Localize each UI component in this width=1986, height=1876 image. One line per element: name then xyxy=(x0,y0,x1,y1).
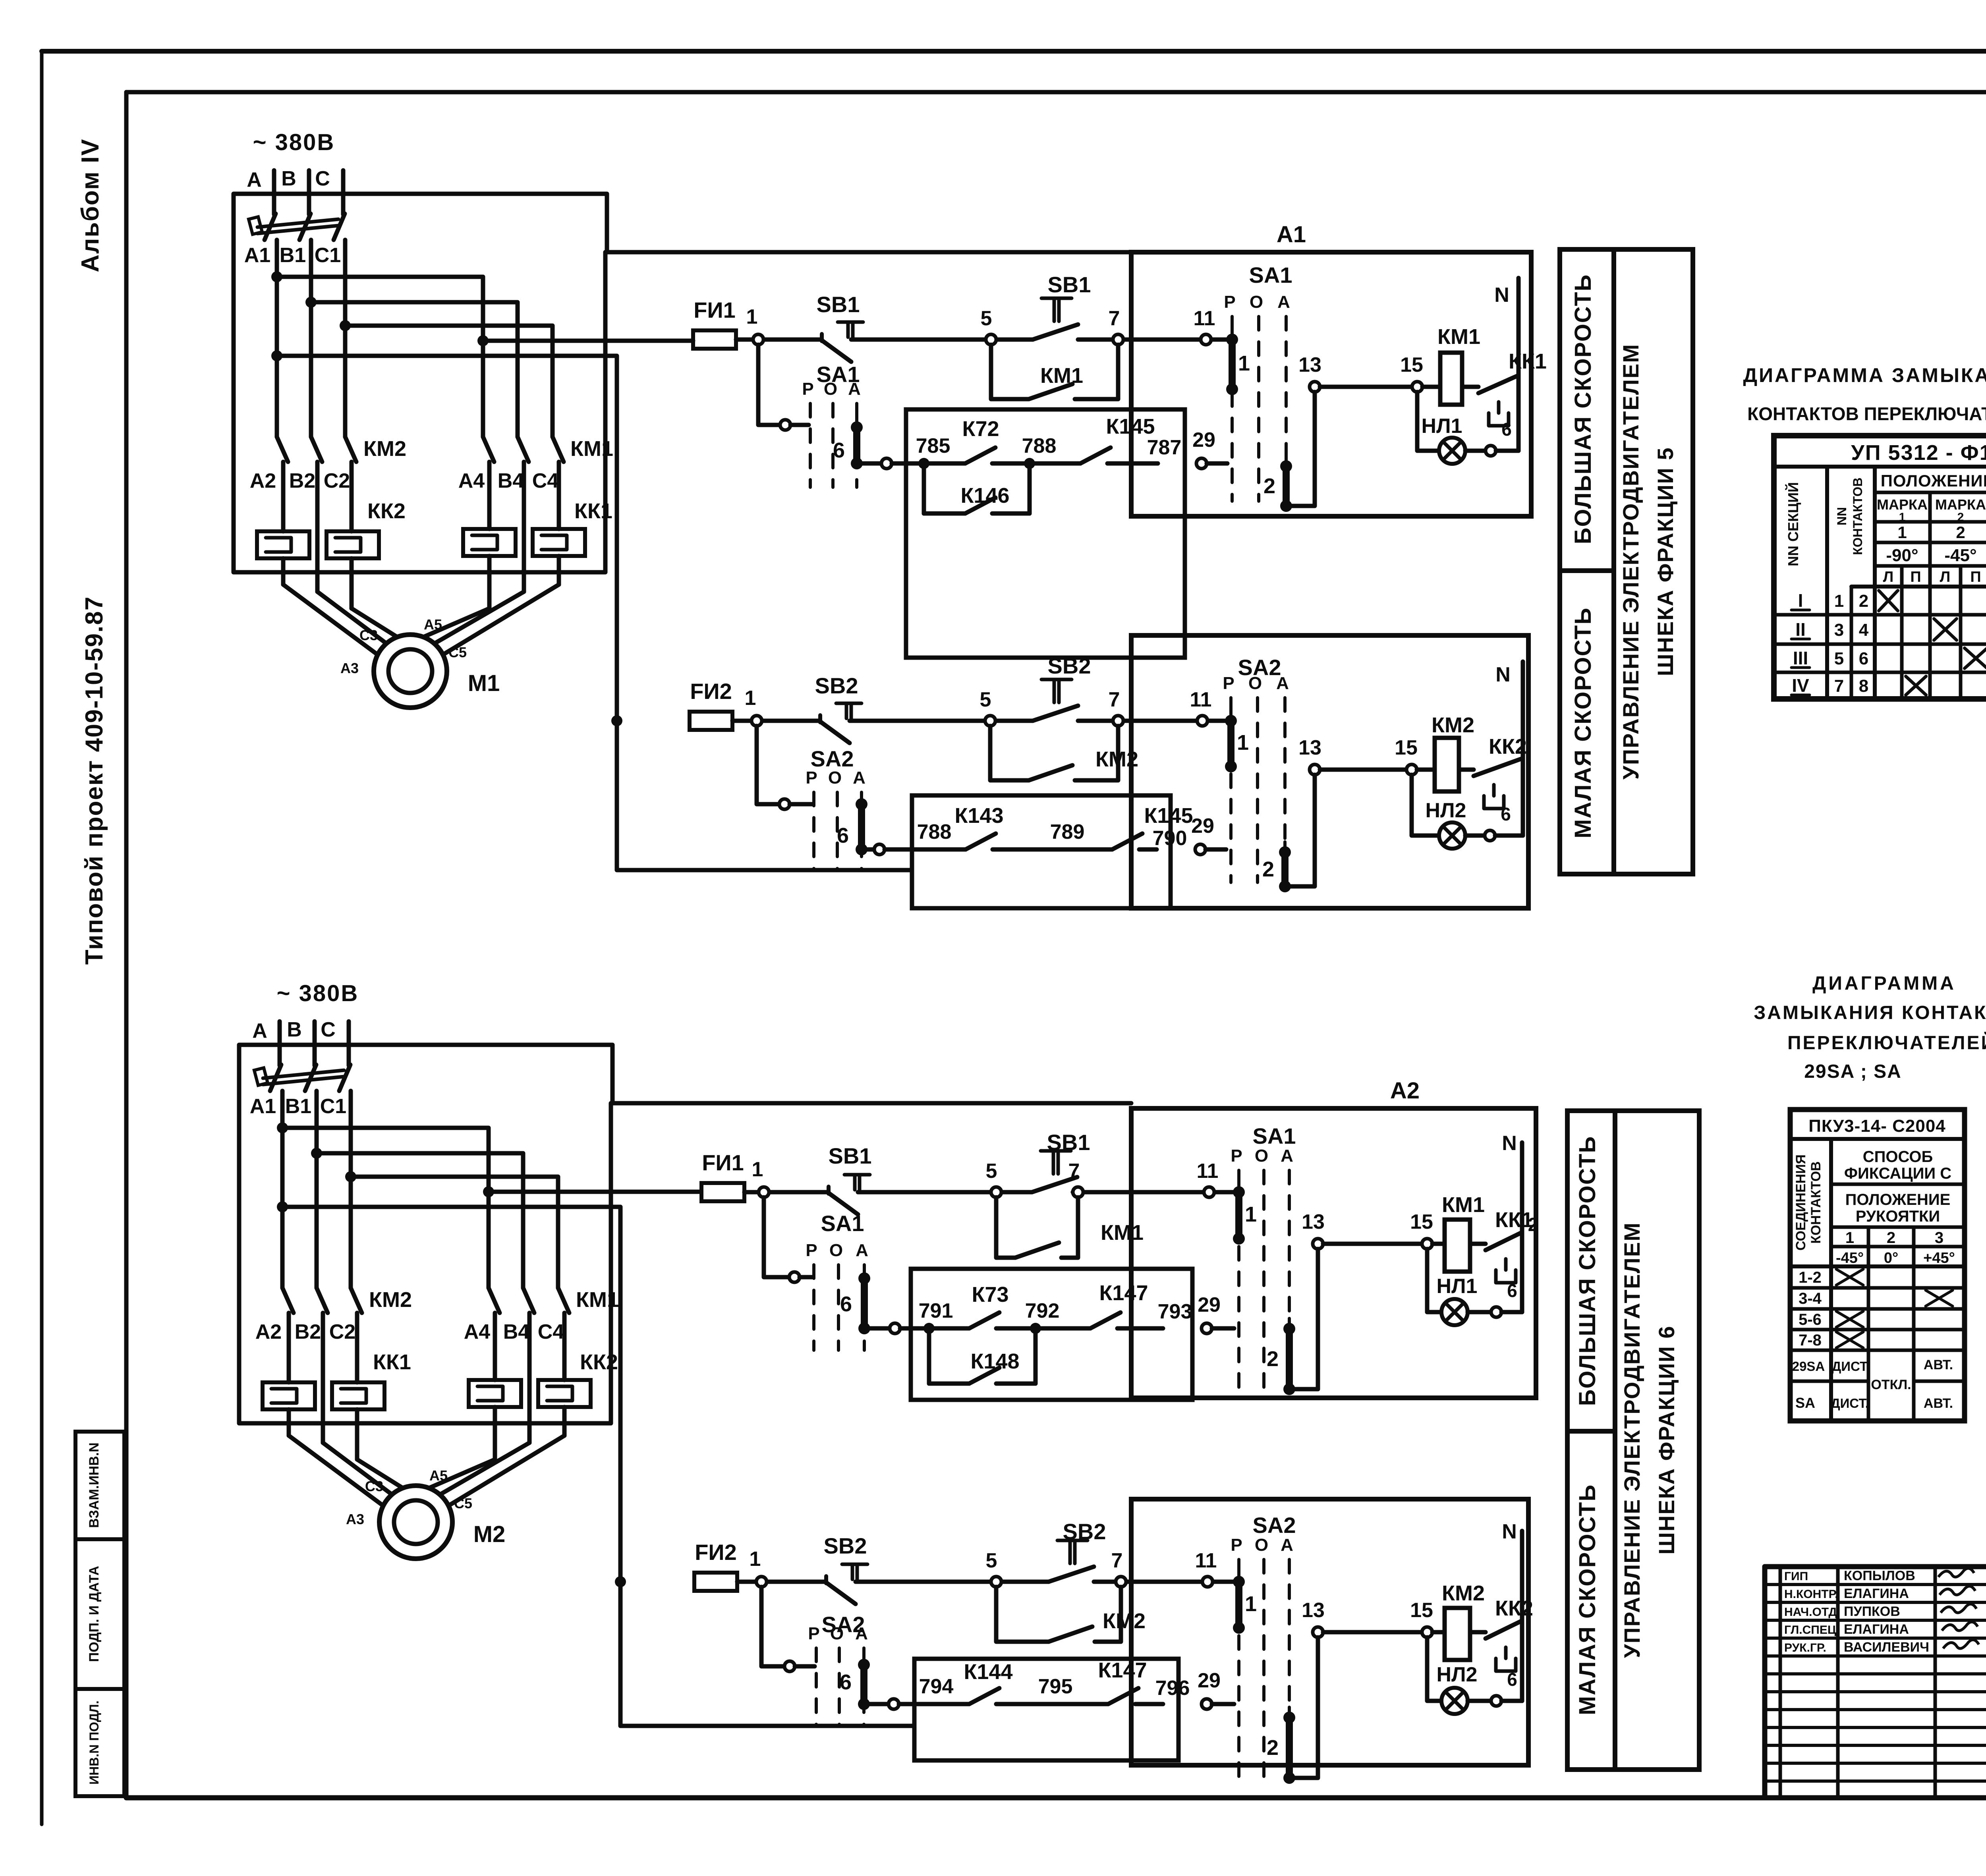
svg-text:Н.КОНТР.: Н.КОНТР. xyxy=(1784,1588,1838,1601)
stop button SB1 NC (M1 row 1) xyxy=(817,292,863,362)
svg-text:О: О xyxy=(830,1624,844,1643)
start button SB1 NO (M2 row 1) xyxy=(1032,1130,1090,1192)
svg-text:2: 2 xyxy=(1263,474,1275,498)
phase line C (М2) xyxy=(321,1018,349,1065)
svg-text:В2: В2 xyxy=(295,1320,321,1343)
svg-text:В4: В4 xyxy=(498,469,524,492)
svg-text:6: 6 xyxy=(840,1292,852,1316)
svg-text:29SA ; SA: 29SA ; SA xyxy=(1804,1061,1902,1082)
node 29 (M2 row 2) xyxy=(1198,1669,1234,1709)
svg-text:А3: А3 xyxy=(340,660,359,676)
svg-text:М1: М1 xyxy=(468,670,500,696)
svg-text:8: 8 xyxy=(1859,676,1868,696)
node 5 (M2 row 1) xyxy=(986,1160,1001,1197)
svg-text:М2: М2 xyxy=(473,1521,506,1547)
svg-text:А: А xyxy=(856,1241,868,1260)
control rail wire (M1 row 1) xyxy=(736,338,1231,342)
svg-text:6: 6 xyxy=(1859,649,1868,668)
interlock contact К147 (M2 row 1) xyxy=(1090,1281,1148,1328)
phase line C (М1) xyxy=(315,167,343,214)
thermal relay КК2 heaters (М1) xyxy=(257,462,406,608)
interlock enclosure (M1 row 1) xyxy=(906,409,1185,658)
svg-text:КК2: КК2 xyxy=(367,499,406,523)
svg-text:А: А xyxy=(853,768,865,787)
svg-text:ПУПКОВ: ПУПКОВ xyxy=(1844,1604,1900,1619)
svg-text:7: 7 xyxy=(1834,676,1844,696)
contact table PKU3-14-C2004 xyxy=(1790,1110,1965,1421)
svg-text:Типовой проект 409-10-59.87: Типовой проект 409-10-59.87 xyxy=(81,596,108,965)
svg-text:А: А xyxy=(252,1019,267,1042)
svg-text:SA1: SA1 xyxy=(1249,262,1292,288)
interlock contact К73 (M2 row 1) xyxy=(969,1283,1009,1328)
svg-text:ЗАМЫКАНИЯ КОНТАКТОВ: ЗАМЫКАНИЯ КОНТАКТОВ xyxy=(1754,1002,1986,1023)
svg-text:С4: С4 xyxy=(532,469,559,492)
svg-text:ОТКЛ.: ОТКЛ. xyxy=(1871,1377,1911,1392)
svg-text:АВТ.: АВТ. xyxy=(1924,1357,1953,1372)
svg-text:А: А xyxy=(848,379,861,399)
wire 13 to 15 (M1 row 2) xyxy=(1320,768,1406,772)
thermal contact КК2 (M1 row 2) xyxy=(1459,735,1527,809)
svg-text:SB1: SB1 xyxy=(817,292,860,317)
feeder wire to fuse FI2 row (M1) xyxy=(271,350,912,870)
node B1 (М2) xyxy=(285,1095,311,1118)
svg-text:NN СЕКЦИЙ: NN СЕКЦИЙ xyxy=(1785,482,1801,566)
svg-text:2: 2 xyxy=(1956,523,1965,542)
svg-text:А: А xyxy=(1276,674,1289,693)
selector inner shafts P O A (M1 row 2) xyxy=(1223,655,1289,882)
svg-text:2: 2 xyxy=(1887,1229,1895,1247)
svg-text:Р: Р xyxy=(808,1624,819,1643)
svg-text:КМ1: КМ1 xyxy=(1101,1221,1144,1245)
selector contact 2 on shaft A (M2 row 1) xyxy=(1267,1249,1318,1395)
svg-text:О: О xyxy=(1255,1535,1268,1555)
svg-text:НЛ1: НЛ1 xyxy=(1437,1275,1478,1298)
svg-text:13: 13 xyxy=(1298,736,1321,759)
svg-text:ЕЛАГИНА: ЕЛАГИНА xyxy=(1844,1622,1909,1637)
self-hold contact КМ1 (M1 row 1) xyxy=(991,345,1118,399)
node labels A4 B4 C4 (М1) xyxy=(458,469,559,492)
node A1 (М1) xyxy=(244,244,270,267)
svg-text:SB2: SB2 xyxy=(815,673,858,698)
phase line A (М1) xyxy=(247,168,274,214)
svg-text:К72: К72 xyxy=(962,417,999,441)
svg-text:КМ1: КМ1 xyxy=(1442,1193,1485,1217)
svg-text:О: О xyxy=(828,768,842,787)
svg-text:15: 15 xyxy=(1410,1210,1433,1233)
svg-text:N: N xyxy=(1495,663,1511,686)
node labels A2 B2 C2 (М2) xyxy=(255,1320,355,1343)
svg-text:ПКУ3-14- С2004: ПКУ3-14- С2004 xyxy=(1808,1116,1946,1136)
svg-text:БОЛЬШАЯ СКОРОСТЬ: БОЛЬШАЯ СКОРОСТЬ xyxy=(1575,1136,1600,1406)
svg-text:О: О xyxy=(824,379,837,399)
node 5 (M1 row 1) xyxy=(981,307,996,345)
svg-text:1: 1 xyxy=(745,687,756,710)
interlock enclosure (M2 row 2) xyxy=(914,1659,1178,1760)
node 11 (M2 row 1) xyxy=(1197,1160,1219,1197)
power enclosure box (М2) xyxy=(239,1045,612,1423)
svg-text:СОЕДИНЕНИЯ: СОЕДИНЕНИЯ xyxy=(1793,1154,1808,1251)
svg-text:В1: В1 xyxy=(280,244,306,267)
svg-text:В2: В2 xyxy=(289,469,315,492)
fuse FИ1 (M2 row 1) xyxy=(701,1150,744,1201)
node 29 (M1 row 1) xyxy=(1192,428,1227,469)
svg-text:SB1: SB1 xyxy=(1047,1130,1090,1155)
svg-text:1: 1 xyxy=(1834,591,1844,611)
left margin stamp strip xyxy=(75,1432,124,1796)
svg-text:6: 6 xyxy=(1507,1669,1517,1690)
svg-text:-45°: -45° xyxy=(1836,1250,1864,1266)
control block enclosure А2 (M2 row 1) xyxy=(1131,1078,1536,1398)
wire node1 to selector (M2 row 2) xyxy=(761,1587,815,1671)
svg-text:С2: С2 xyxy=(329,1320,355,1343)
neutral wire N (M1 row 2) xyxy=(1495,662,1523,836)
svg-text:ЕЛАГИНА: ЕЛАГИНА xyxy=(1844,1586,1909,1601)
svg-text:В4: В4 xyxy=(503,1320,530,1343)
svg-text:5: 5 xyxy=(1834,649,1844,668)
motor М2 xyxy=(346,1467,505,1559)
branch wire A to KM1 contacts (М1) xyxy=(271,271,483,437)
svg-text:А: А xyxy=(1277,292,1290,312)
control block enclosure А1 (M1 row 1) xyxy=(1131,222,1531,516)
interlock contact chain wire (M2 row 1) xyxy=(870,1323,1163,1334)
svg-text:А3: А3 xyxy=(346,1511,364,1527)
selector contact 6 on shaft A (M1 row 1) xyxy=(833,417,863,469)
wire node1 to selector (M1 row 2) xyxy=(757,726,812,809)
svg-text:НЛ2: НЛ2 xyxy=(1437,1663,1478,1686)
start button SB2 NO (M2 row 2) xyxy=(1049,1519,1106,1582)
wire 13 to 15 (M1 row 1) xyxy=(1320,385,1412,389)
svg-text:2: 2 xyxy=(1267,1347,1279,1371)
branch wire B to KM1 contacts (М1) xyxy=(305,297,518,437)
title block signatures xyxy=(1784,1568,1979,1655)
svg-text:К147: К147 xyxy=(1099,1281,1148,1305)
svg-text:11: 11 xyxy=(1190,688,1212,711)
svg-text:КК1: КК1 xyxy=(1509,349,1547,373)
function label box Управление электродвигателем шнека xyxy=(1615,1111,1699,1770)
svg-text:5-6: 5-6 xyxy=(1799,1311,1822,1328)
svg-text:15: 15 xyxy=(1410,1599,1433,1622)
svg-text:SA2: SA2 xyxy=(811,746,854,771)
svg-text:НЛ2: НЛ2 xyxy=(1426,799,1466,822)
interlock contact К145 (M1 row 2) xyxy=(1112,804,1193,849)
selector switch SA2 dashed shafts P O A (M2 row 2) xyxy=(808,1612,868,1725)
svg-text:SB2: SB2 xyxy=(1048,653,1091,678)
svg-text:А4: А4 xyxy=(458,469,485,492)
selector switch SA1 dashed shafts P O A (M2 row 1) xyxy=(806,1211,868,1350)
svg-text:Р: Р xyxy=(1231,1535,1242,1555)
svg-text:ПОДП. И ДАТА: ПОДП. И ДАТА xyxy=(87,1566,102,1662)
svg-text:Р: Р xyxy=(1231,1146,1242,1166)
stop button SB1 NC (M2 row 1) xyxy=(829,1143,872,1214)
svg-text:3: 3 xyxy=(1935,1229,1943,1247)
svg-text:МАЛАЯ СКОРОСТЬ: МАЛАЯ СКОРОСТЬ xyxy=(1570,607,1596,838)
diagram title for switch 10SA xyxy=(1743,364,1986,424)
selector switch SA1 dashed shafts P O A (M1 row 1) xyxy=(802,362,861,487)
svg-text:ДИАГРАММА ЗАМЫКАНИЯ: ДИАГРАММА ЗАМЫКАНИЯ xyxy=(1743,364,1986,386)
svg-text:6: 6 xyxy=(1507,1280,1517,1301)
svg-text:13: 13 xyxy=(1302,1210,1325,1233)
svg-text:РУКОЯТКИ: РУКОЯТКИ xyxy=(1856,1208,1940,1225)
svg-text:П: П xyxy=(1910,569,1921,585)
svg-text:Р: Р xyxy=(1224,292,1235,312)
svg-text:785: 785 xyxy=(916,434,950,457)
svg-text:1: 1 xyxy=(746,305,758,328)
svg-text:КМ2: КМ2 xyxy=(1432,713,1474,737)
svg-text:А4: А4 xyxy=(464,1320,491,1343)
start button SB2 NO (M1 row 2) xyxy=(1033,653,1091,721)
neutral wire N (M2 row 1) xyxy=(1502,1132,1522,1312)
thermal relay КК2 heaters (М2) xyxy=(469,1313,618,1459)
svg-text:792: 792 xyxy=(1025,1299,1060,1322)
svg-text:О: О xyxy=(1255,1146,1268,1166)
svg-text:ДИСТ.: ДИСТ. xyxy=(1831,1396,1869,1411)
svg-text:0°: 0° xyxy=(1884,1250,1898,1266)
fuse FИ2 (M2 row 2) xyxy=(694,1540,737,1591)
node 11 (M1 row 2) xyxy=(1190,688,1212,726)
svg-text:ВЗАМ.ИНВ.N: ВЗАМ.ИНВ.N xyxy=(87,1442,102,1528)
svg-text:МАРКА: МАРКА xyxy=(1877,496,1928,513)
phase C vertical after switch (М2) xyxy=(349,1091,353,1288)
svg-text:7: 7 xyxy=(1109,307,1120,330)
svg-text:796: 796 xyxy=(1155,1677,1190,1700)
interlock bypass contact К146 (M1 row 1) xyxy=(918,458,1035,513)
motor М1 xyxy=(340,616,500,708)
svg-text:ДИСТ: ДИСТ xyxy=(1832,1359,1868,1374)
contactor coil КМ1 (M2 row 1) xyxy=(1432,1193,1485,1272)
node 13 (M1 row 1) xyxy=(1298,353,1321,392)
interlock contact К72 (M1 row 1) xyxy=(962,417,999,463)
svg-text:ШНЕКА ФРАКЦИИ 6: ШНЕКА ФРАКЦИИ 6 xyxy=(1654,1325,1679,1554)
svg-text:5: 5 xyxy=(986,1160,997,1183)
speed label box Большая скорость xyxy=(1560,249,1614,571)
selector contact 1 on shaft P (M1 row 2) xyxy=(1225,710,1249,772)
contact table UP 5312-F105 xyxy=(1774,436,1986,699)
svg-text:788: 788 xyxy=(1022,434,1057,457)
svg-text:789: 789 xyxy=(1050,820,1085,843)
interlock contact К144 (M2 row 2) xyxy=(964,1660,1012,1704)
title block stamp xyxy=(1765,1567,1986,1798)
svg-text:С2: С2 xyxy=(324,469,350,492)
node 1 (M1 row 1) xyxy=(746,305,763,345)
thermal contact КК1 (M1 row 1) xyxy=(1462,349,1547,426)
svg-text:К146: К146 xyxy=(960,484,1009,508)
svg-text:РУК.ГР.: РУК.ГР. xyxy=(1784,1641,1826,1654)
svg-text:А5: А5 xyxy=(429,1467,448,1484)
svg-text:С1: С1 xyxy=(320,1095,346,1118)
node 29 (M2 row 1) xyxy=(1198,1293,1234,1334)
node 15 (M2 row 1) xyxy=(1410,1210,1433,1249)
svg-text:NN: NN xyxy=(1835,507,1849,525)
power enclosure box (М1) xyxy=(234,194,607,572)
svg-text:КМ2: КМ2 xyxy=(363,437,406,461)
svg-text:К148: К148 xyxy=(970,1349,1019,1373)
svg-text:НЛ1: НЛ1 xyxy=(1422,415,1462,438)
svg-text:ИНВ.N ПОДЛ.: ИНВ.N ПОДЛ. xyxy=(87,1700,101,1785)
svg-text:IV: IV xyxy=(1792,675,1809,696)
branch wire B to KM1 contacts (М2) xyxy=(311,1148,523,1288)
interlock contact chain wire (M1 row 2) xyxy=(867,844,1157,855)
svg-text:АВТ.: АВТ. xyxy=(1924,1396,1953,1411)
svg-text:О: О xyxy=(1250,292,1263,312)
svg-text:ДИАГРАММА: ДИАГРАММА xyxy=(1812,973,1956,994)
control block enclosure (M1 row 2) xyxy=(1131,635,1528,908)
wire labels 794 795 796 (M2 row 2) xyxy=(919,1675,1190,1700)
svg-text:К144: К144 xyxy=(964,1660,1012,1684)
stop button SB2 NC (M2 row 2) xyxy=(824,1533,867,1604)
self-hold contact КМ1 (M2 row 1) xyxy=(996,1197,1144,1258)
svg-text:В1: В1 xyxy=(285,1095,311,1118)
selector contact 1 on shaft P (M2 row 1) xyxy=(1233,1182,1257,1245)
svg-text:1: 1 xyxy=(752,1158,763,1181)
svg-text:А2: А2 xyxy=(250,469,276,492)
svg-text:29: 29 xyxy=(1191,814,1214,838)
svg-text:SA: SA xyxy=(1795,1395,1815,1411)
node B1 (М1) xyxy=(280,244,306,267)
contactor coil КМ2 (M1 row 2) xyxy=(1417,713,1474,791)
svg-text:-45°: -45° xyxy=(1944,546,1976,565)
node 11 (M2 row 2) xyxy=(1195,1549,1217,1587)
node 1 (M2 row 1) xyxy=(752,1158,769,1197)
svg-text:1: 1 xyxy=(1845,1229,1854,1247)
speed label box Малая скорость xyxy=(1560,571,1614,874)
signal lamp НЛ1 (M1 row 1) xyxy=(1417,392,1518,464)
branch wire C to KM1 contacts (М1) xyxy=(340,320,553,437)
svg-text:SB1: SB1 xyxy=(1048,272,1091,297)
svg-text:С3: С3 xyxy=(359,627,378,643)
svg-text:2: 2 xyxy=(1957,511,1964,524)
svg-text:КОНТАКТОВ: КОНТАКТОВ xyxy=(1808,1161,1824,1243)
3-pole disconnect switch QS (М2) xyxy=(254,1065,350,1091)
svg-text:6: 6 xyxy=(1501,804,1511,824)
node 11 (M1 row 1) xyxy=(1194,307,1215,345)
branch wire C to KM1 contacts (М2) xyxy=(345,1171,558,1288)
wire labels 788 789 790 (M1 row 2) xyxy=(917,820,1187,850)
svg-text:К73: К73 xyxy=(972,1283,1008,1307)
wire 13 to 15 (M2 row 1) xyxy=(1323,1242,1422,1246)
svg-text:7-8: 7-8 xyxy=(1799,1332,1822,1349)
node 13 (M2 row 1) xyxy=(1302,1210,1325,1249)
contactor KM1 main contacts (М2) xyxy=(489,1288,619,1313)
svg-text:SB1: SB1 xyxy=(829,1143,872,1168)
interlock enclosure (M1 row 2) xyxy=(912,795,1171,908)
svg-text:А: А xyxy=(855,1624,868,1643)
selector contact 1 on shaft P (M1 row 1) xyxy=(1226,329,1250,395)
selector contact 2 on shaft A (M1 row 2) xyxy=(1262,775,1315,892)
selector contact 6 on shaft A (M2 row 2) xyxy=(840,1654,870,1710)
svg-text:29: 29 xyxy=(1198,1669,1221,1692)
svg-text:КМ1: КМ1 xyxy=(1437,325,1480,349)
svg-text:787: 787 xyxy=(1147,436,1182,459)
svg-text:О: О xyxy=(1248,674,1262,693)
svg-text:29: 29 xyxy=(1192,428,1215,452)
svg-text:N: N xyxy=(1502,1520,1517,1543)
selector contact 1 on shaft P (M2 row 2) xyxy=(1233,1571,1257,1634)
svg-text:ГЛ.СПЕЦ.: ГЛ.СПЕЦ. xyxy=(1784,1623,1839,1637)
svg-text:1: 1 xyxy=(1238,351,1250,375)
svg-text:С5: С5 xyxy=(454,1495,472,1511)
svg-text:SA2: SA2 xyxy=(1253,1513,1296,1538)
selector inner shafts P O A (M2 row 2) xyxy=(1231,1513,1296,1779)
svg-text:ПОЛОЖЕНИЕ РУКОЯТКИ: ПОЛОЖЕНИЕ РУКОЯТКИ xyxy=(1881,471,1986,490)
svg-text:N: N xyxy=(1494,284,1509,307)
node labels A2 B2 C2 (М1) xyxy=(250,469,350,492)
interlock bypass contact К148 (M2 row 1) xyxy=(923,1323,1041,1384)
svg-text:Л: Л xyxy=(1940,569,1951,585)
contactor KM1 main contacts (М1) xyxy=(483,437,613,462)
svg-text:+45°: +45° xyxy=(1923,1250,1955,1266)
svg-text:FИ2: FИ2 xyxy=(695,1540,737,1565)
svg-text:С5: С5 xyxy=(448,644,467,660)
svg-text:СПОСОБ: СПОСОБ xyxy=(1863,1148,1933,1166)
thermal relay КК1 heaters (М2) xyxy=(263,1313,411,1459)
start button SB1 NO (M1 row 1) xyxy=(1033,272,1091,340)
wire labels 791 792 793 (M2 row 1) xyxy=(919,1299,1192,1323)
svg-text:А2: А2 xyxy=(1390,1078,1420,1104)
neutral wire N (M2 row 2) xyxy=(1502,1520,1522,1701)
node 15 (M2 row 2) xyxy=(1410,1599,1433,1637)
svg-text:КМ1: КМ1 xyxy=(570,437,613,461)
node 7 (M2 row 1) xyxy=(1068,1160,1083,1197)
svg-text:5: 5 xyxy=(981,307,992,330)
interlock enclosure (M2 row 1) xyxy=(911,1269,1192,1400)
phase B vertical after switch (М2) xyxy=(315,1091,319,1288)
svg-text:6: 6 xyxy=(1501,419,1512,440)
svg-text:С1: С1 xyxy=(315,244,341,267)
phase line B (М2) xyxy=(287,1018,315,1065)
svg-text:6: 6 xyxy=(833,438,845,462)
svg-text:29: 29 xyxy=(1198,1293,1221,1316)
selector inner shafts P O A (M2 row 1) xyxy=(1231,1123,1296,1392)
svg-text:КОПЫЛОВ: КОПЫЛОВ xyxy=(1844,1568,1915,1583)
interlock contact chain wire (M1 row 1) xyxy=(862,458,1158,469)
svg-text:N: N xyxy=(1502,1132,1517,1155)
svg-text:-90°: -90° xyxy=(1886,546,1918,565)
node 5 (M2 row 2) xyxy=(986,1549,1001,1587)
selector contact 6 on shaft A (M1 row 2) xyxy=(837,794,867,855)
node 15 (M1 row 2) xyxy=(1395,736,1418,775)
feeder wire to fuse FI2 row (M2) xyxy=(277,1201,914,1726)
svg-text:БОЛЬШАЯ СКОРОСТЬ: БОЛЬШАЯ СКОРОСТЬ xyxy=(1570,274,1596,544)
thermal contact КК2 (M2 row 2) xyxy=(1470,1596,1533,1671)
wire 13 to 15 (M2 row 2) xyxy=(1323,1630,1422,1635)
svg-text:1: 1 xyxy=(1897,523,1907,542)
fuse FИ2 (M1 row 2) xyxy=(690,679,732,730)
control rail wire (M2 row 1) xyxy=(744,1190,1238,1195)
svg-text:В: В xyxy=(287,1018,302,1041)
phase B vertical after switch (М1) xyxy=(309,240,313,437)
wire node1 to selector (M1 row 1) xyxy=(758,345,809,430)
svg-text:А: А xyxy=(247,168,262,191)
svg-text:КМ1: КМ1 xyxy=(576,1288,619,1312)
svg-text:SA1: SA1 xyxy=(1253,1123,1296,1148)
svg-text:А: А xyxy=(1281,1535,1293,1555)
svg-text:793: 793 xyxy=(1158,1300,1192,1323)
diagram title for switches 29SA SA xyxy=(1754,973,1986,1082)
signal lamp НЛ2 (M1 row 2) xyxy=(1412,775,1523,849)
branch wire A to KM1 contacts (М2) xyxy=(277,1122,489,1288)
svg-text:А1: А1 xyxy=(250,1095,276,1118)
contactor KM2 main contacts (М2) xyxy=(282,1288,412,1313)
svg-text:7: 7 xyxy=(1068,1160,1080,1183)
svg-text:794: 794 xyxy=(919,1675,954,1698)
svg-text:ПЕРЕКЛЮЧАТЕЛЕЙ: ПЕРЕКЛЮЧАТЕЛЕЙ xyxy=(1787,1032,1986,1054)
signal lamp НЛ2 (M2 row 2) xyxy=(1427,1637,1522,1714)
svg-text:3-4: 3-4 xyxy=(1799,1290,1822,1307)
contactor KM2 main contacts (М1) xyxy=(277,437,406,462)
svg-text:~ 380В: ~ 380В xyxy=(253,129,335,155)
svg-text:FИ2: FИ2 xyxy=(690,679,732,704)
node 7 (M1 row 2) xyxy=(1109,688,1123,726)
